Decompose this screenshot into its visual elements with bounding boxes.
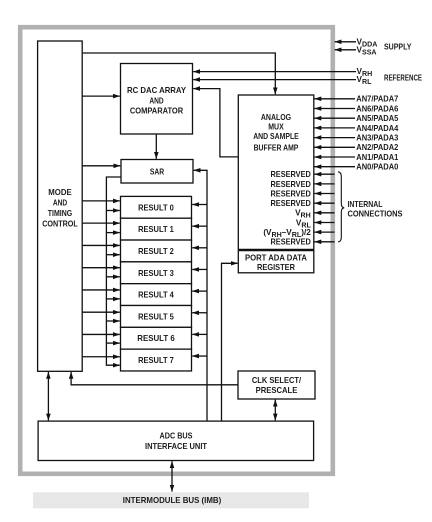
wire feeder branch to RESULT 2 bbox=[106, 254, 119, 256]
wire ADC bus to PORT ADA register bbox=[222, 263, 238, 421]
box RC DAC ARRAY AND COMPARATOR bbox=[121, 64, 193, 135]
wire MODE to RESULT 4 bbox=[82, 289, 120, 291]
pin VDDA bbox=[335, 41, 356, 43]
svg-text:AN1/PADA1: AN1/PADA1 bbox=[356, 153, 398, 162]
wire MODE to ADC bus (bidirectional) bbox=[47, 372, 49, 420]
svg-text:RESERVED: RESERVED bbox=[271, 189, 311, 198]
wire feeder branch to RESULT 0 bbox=[106, 210, 119, 212]
svg-text:AN5/PADA5: AN5/PADA5 bbox=[356, 114, 398, 123]
box ADC BUS INTERFACE UNIT bbox=[38, 421, 314, 460]
brace internal connections bbox=[338, 172, 344, 242]
wire MODE to ANALOG MUX top bbox=[82, 53, 275, 94]
label INTERNAL CONNECTIONS bbox=[348, 200, 403, 219]
wire MODE to RESULT 6 bbox=[82, 333, 120, 335]
svg-text:ANALOG: ANALOG bbox=[261, 113, 291, 122]
wire bus branch to RESULT 5 right bbox=[192, 312, 207, 314]
wire CLK SELECT to ADC bus (bidirectional) bbox=[274, 400, 276, 421]
internal connection arrow row 2 bbox=[315, 183, 335, 185]
wire sample buffer output to comparator bbox=[193, 89, 238, 157]
svg-text:CONTROL: CONTROL bbox=[42, 219, 78, 228]
svg-text:RESERVED: RESERVED bbox=[271, 180, 311, 189]
svg-text:REFERENCE: REFERENCE bbox=[384, 73, 422, 82]
svg-text:TIMING: TIMING bbox=[48, 209, 72, 218]
pin AN4/PADA4 bbox=[315, 127, 356, 129]
wire MODE to RESULT 1 bbox=[82, 222, 120, 224]
svg-text:RESULT 1: RESULT 1 bbox=[138, 225, 174, 234]
pin AN7/PADA7 bbox=[315, 98, 356, 100]
internal connection arrow row 8 bbox=[315, 241, 335, 243]
internal connection arrow row 3 bbox=[315, 193, 335, 195]
box RESULT 2 bbox=[121, 240, 192, 262]
svg-text:RESULT 2: RESULT 2 bbox=[138, 247, 174, 256]
svg-text:AN0/PADA0: AN0/PADA0 bbox=[356, 163, 398, 172]
wire bus branch to RESULT 2 right bbox=[192, 247, 207, 249]
wire feeder branch to RESULT 4 bbox=[106, 298, 119, 300]
internal connection arrow row 5 bbox=[315, 212, 335, 214]
wire MODE to RESULT 0 bbox=[82, 200, 120, 202]
svg-text:RESERVED: RESERVED bbox=[271, 199, 311, 208]
internal connection arrow row 7 bbox=[315, 231, 335, 233]
svg-text:INTERMODULE BUS (IMB): INTERMODULE BUS (IMB) bbox=[123, 496, 222, 505]
svg-text:AND: AND bbox=[149, 96, 163, 105]
svg-text:AN3/PADA3: AN3/PADA3 bbox=[356, 134, 398, 143]
svg-text:AN6/PADA6: AN6/PADA6 bbox=[356, 104, 398, 113]
svg-text:RC DAC ARRAY: RC DAC ARRAY bbox=[127, 86, 187, 95]
svg-text:RESERVED: RESERVED bbox=[271, 170, 311, 179]
svg-text:RESULT 3: RESULT 3 bbox=[138, 269, 174, 278]
wire bus branch to RESULT 3 right bbox=[192, 268, 207, 270]
box RESULT 5 bbox=[121, 306, 192, 328]
wire feeder branch to RESULT 3 bbox=[106, 276, 119, 278]
wire MODE to RESULT 2 bbox=[82, 244, 120, 246]
svg-text:PORT ADA DATA: PORT ADA DATA bbox=[245, 253, 307, 262]
svg-text:RESULT 5: RESULT 5 bbox=[138, 312, 174, 321]
svg-text:AN7/PADA7: AN7/PADA7 bbox=[356, 95, 398, 104]
svg-text:RESULT 7: RESULT 7 bbox=[138, 356, 174, 365]
wire bus branch to RESULT 0 right bbox=[192, 204, 207, 206]
box SAR bbox=[121, 160, 193, 184]
svg-text:CONNECTIONS: CONNECTIONS bbox=[348, 210, 403, 219]
box RESULT 3 bbox=[121, 262, 192, 284]
box RESULT 1 bbox=[121, 218, 192, 240]
svg-text:RESULT 0: RESULT 0 bbox=[138, 203, 174, 212]
internal connection arrow row 4 bbox=[315, 202, 335, 204]
box ANALOG MUX AND SAMPLE BUFFER AMP bbox=[238, 95, 313, 249]
wire bus branch to RESULT 7 right bbox=[192, 355, 207, 357]
pin AN6/PADA6 bbox=[315, 108, 356, 110]
svg-text:COMPARATOR: COMPARATOR bbox=[130, 106, 183, 115]
svg-text:RESULT 6: RESULT 6 bbox=[137, 334, 175, 343]
pin VSSA bbox=[335, 49, 356, 51]
svg-text:ADC BUS: ADC BUS bbox=[160, 431, 193, 440]
pin AN2/PADA2 bbox=[315, 146, 356, 148]
wire RC DAC to SAR bbox=[155, 134, 157, 159]
internal connection row labels bbox=[263, 170, 311, 247]
svg-text:AN4/PADA4: AN4/PADA4 bbox=[356, 124, 398, 133]
box RESULT 0 bbox=[121, 196, 192, 218]
wire MODE to RC DAC left bbox=[82, 95, 120, 97]
frame (gray module border) bbox=[20, 27, 333, 474]
wire bus branch to RESULT 1 right bbox=[192, 225, 207, 227]
wire feeder branch to RESULT 1 bbox=[106, 232, 119, 234]
wire MODE to RESULT 5 bbox=[82, 311, 120, 313]
pin AN5/PADA5 bbox=[315, 117, 356, 119]
svg-text:CLK SELECT/: CLK SELECT/ bbox=[252, 376, 302, 385]
svg-text:MODE: MODE bbox=[48, 188, 72, 197]
wire bus branch to RESULT 6 right bbox=[192, 333, 207, 335]
box RESULT 4 bbox=[121, 284, 192, 306]
box CLK SELECT/PRESCALE bbox=[238, 371, 315, 399]
svg-text:INTERNAL: INTERNAL bbox=[348, 200, 383, 209]
svg-text:AND SAMPLE: AND SAMPLE bbox=[253, 132, 299, 141]
wire VRL reference line to RC DAC bbox=[193, 79, 356, 81]
pin AN3/PADA3 bbox=[315, 137, 356, 139]
svg-text:PRESCALE: PRESCALE bbox=[256, 386, 298, 395]
svg-text:SAR: SAR bbox=[150, 167, 164, 176]
wire feeder branch to RESULT 5 bbox=[106, 320, 119, 322]
svg-text:REGISTER: REGISTER bbox=[257, 263, 295, 272]
wire feeder branch to RESULT 6 bbox=[106, 342, 119, 344]
pin AN1/PADA1 bbox=[315, 156, 356, 158]
wire MODE to RESULT 7 bbox=[82, 356, 120, 358]
box MODE AND TIMING CONTROL bbox=[38, 41, 83, 371]
svg-text:AN2/PADA2: AN2/PADA2 bbox=[356, 143, 398, 152]
wire bus branch to RESULT 4 right bbox=[192, 290, 207, 292]
svg-text:RESERVED: RESERVED bbox=[271, 238, 311, 247]
svg-text:AND: AND bbox=[53, 198, 67, 207]
svg-text:RESULT 4: RESULT 4 bbox=[138, 291, 174, 300]
svg-text:MUX: MUX bbox=[268, 123, 284, 132]
wire ADC bus to intermodule bus (bidirectional) bbox=[171, 461, 173, 491]
wire CLK SELECT to MODE control bbox=[71, 372, 238, 385]
box RESULT 7 bbox=[121, 349, 192, 371]
pin AN0/PADA0 bbox=[315, 166, 356, 168]
internal connection arrow row 6 bbox=[315, 222, 335, 224]
wire SAR to result registers feeder bbox=[106, 177, 121, 365]
wire data bus feeder to SAR right bbox=[194, 170, 207, 421]
wire MODE to SAR left bbox=[82, 165, 120, 167]
svg-text:SUPPLY: SUPPLY bbox=[384, 42, 412, 51]
wire VRH reference line to RC DAC bbox=[193, 71, 356, 73]
box RESULT 6 bbox=[121, 327, 192, 349]
intermodule bus bar bbox=[33, 492, 309, 508]
svg-text:BUFFER AMP: BUFFER AMP bbox=[254, 143, 299, 152]
box PORT ADA DATA REGISTER bbox=[238, 251, 313, 273]
internal connection arrow row 1 bbox=[315, 173, 335, 175]
svg-text:INTERFACE UNIT: INTERFACE UNIT bbox=[145, 442, 207, 451]
wire MODE to RESULT 3 bbox=[82, 267, 120, 269]
